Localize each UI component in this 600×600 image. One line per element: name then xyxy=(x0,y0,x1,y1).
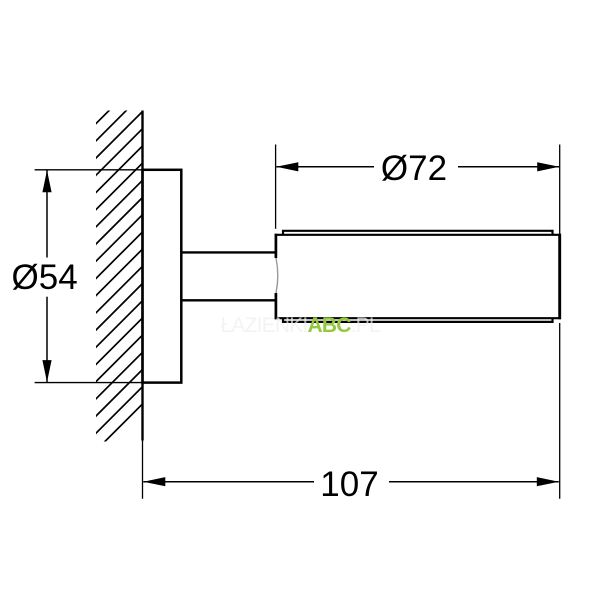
holder top main line xyxy=(275,234,561,236)
holder left face lower xyxy=(275,293,278,319)
dim 107 left extension line xyxy=(142,441,144,499)
dim Ø72 right arrow xyxy=(537,162,559,171)
dim Ø72 left extension line xyxy=(275,145,277,229)
mounting plate xyxy=(143,170,182,383)
dim Ø54 line upper segment xyxy=(46,170,48,257)
holder top rim line xyxy=(283,231,553,235)
holder right face xyxy=(558,234,561,320)
dim Ø72 line left segment xyxy=(276,166,374,168)
holder bottom main line xyxy=(275,317,561,319)
svg-text:Ø54: Ø54 xyxy=(12,258,78,297)
svg-text:ŁAZIENKIABC.PL: ŁAZIENKIABC.PL xyxy=(221,314,380,337)
dim Ø72 line right segment xyxy=(458,166,559,168)
holder face arc xyxy=(276,258,278,293)
svg-text:Ø72: Ø72 xyxy=(381,149,447,188)
holder bottom rim line xyxy=(283,318,553,322)
svg-text:107: 107 xyxy=(320,465,378,504)
dim Ø54 line lower segment xyxy=(46,297,48,382)
dim Ø54 top arrow xyxy=(42,170,51,192)
dim 107 line right segment xyxy=(389,481,559,483)
dim 107 right arrow xyxy=(537,477,559,486)
dim 107 line left segment xyxy=(143,481,314,483)
wall face line xyxy=(141,111,143,441)
dim 107 left arrow xyxy=(143,477,165,486)
dim Ø72 left arrow xyxy=(276,162,298,171)
stem bottom line xyxy=(181,299,276,301)
dim Ø54 bottom arrow xyxy=(42,360,51,382)
dim right shared extension line xyxy=(559,145,561,234)
dim Ø54 bottom extension line xyxy=(35,382,142,384)
stem top line xyxy=(181,251,276,253)
holder left face upper xyxy=(275,234,278,258)
wall hatch xyxy=(88,70,150,459)
dim Ø54 top extension line xyxy=(35,169,142,171)
